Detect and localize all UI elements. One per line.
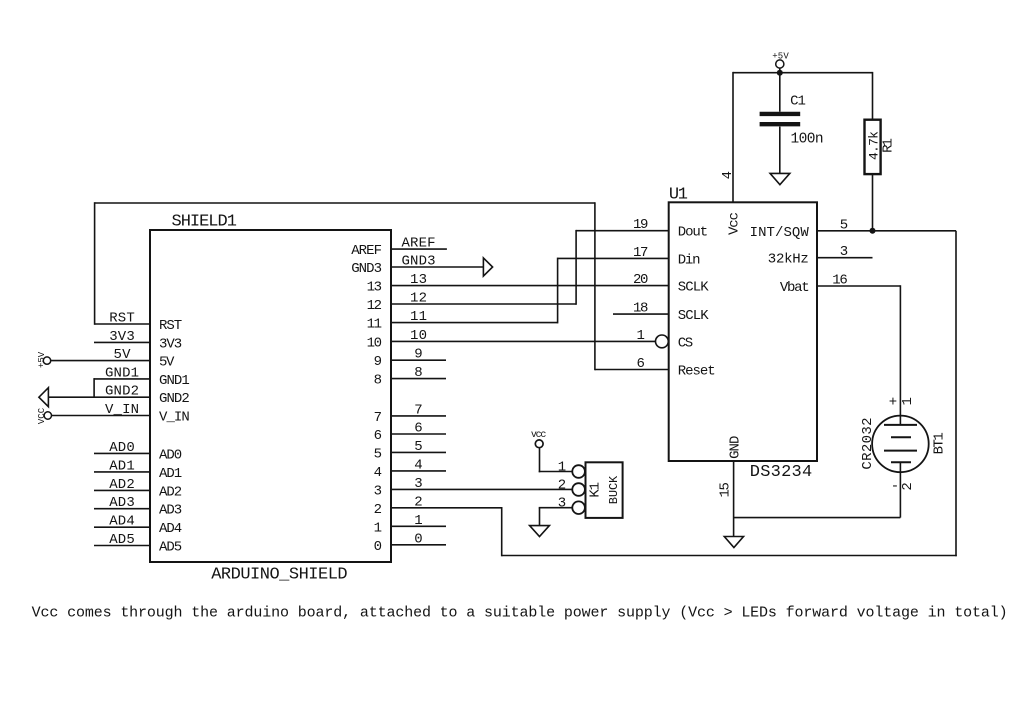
svg-text:R1: R1 (880, 138, 896, 153)
svg-text:10: 10 (367, 335, 382, 351)
capacitor C1 (760, 73, 801, 174)
power symbol +5V (top) (772, 52, 789, 73)
wire 11 to U1 Din pin 17 (391, 258, 669, 324)
svg-text:3: 3 (558, 496, 566, 512)
svg-text:C1: C1 (790, 94, 806, 110)
label R1 (rotated) (880, 138, 896, 153)
wire K1 pin3 to ground (539, 508, 573, 526)
svg-text:4: 4 (374, 465, 382, 481)
svg-text:AREF: AREF (351, 243, 382, 259)
svg-text:11: 11 (410, 309, 427, 325)
svg-text:AD5: AD5 (109, 532, 135, 548)
net label 12 (410, 291, 427, 307)
wire INT/SQW pin 5 (817, 230, 956, 232)
svg-text:13: 13 (410, 272, 427, 288)
battery plus sign (889, 395, 897, 411)
svg-text:1: 1 (900, 397, 916, 405)
svg-text:U1: U1 (669, 186, 688, 205)
svg-text:V_IN: V_IN (159, 410, 190, 426)
wire +5V rail (733, 72, 873, 202)
net label GND1 (105, 365, 139, 381)
global label arrow GND2 (left-pointing) (39, 388, 49, 407)
svg-text:CR2032: CR2032 (860, 417, 876, 469)
net label 2 (414, 494, 422, 510)
svg-text:6: 6 (414, 421, 422, 437)
U1 CS inverting bubble (656, 335, 669, 348)
svg-text:11: 11 (367, 317, 382, 333)
U1 left pin names (678, 225, 716, 380)
svg-text:RST: RST (159, 318, 182, 334)
svg-text:8: 8 (374, 373, 382, 389)
svg-text:AD2: AD2 (109, 477, 135, 493)
U1 pin number 4 (rotated, top) (720, 171, 736, 179)
svg-text:+5V: +5V (772, 52, 789, 62)
svg-text:SCLK: SCLK (678, 308, 710, 324)
K1 pin circles (572, 465, 585, 514)
U1 pin number 15 (rotated, bottom) (718, 482, 734, 498)
svg-text:AD1: AD1 (159, 466, 182, 482)
svg-text:3V3: 3V3 (109, 329, 135, 345)
net label RST (109, 311, 135, 327)
label C1 (790, 94, 806, 110)
svg-text:19: 19 (633, 217, 649, 233)
svg-text:2: 2 (900, 482, 916, 490)
svg-text:4.7k: 4.7k (867, 131, 882, 160)
U1 right pin numbers 5,3,16 (832, 217, 848, 288)
svg-text:BT1: BT1 (932, 432, 948, 454)
svg-text:+: + (889, 395, 897, 411)
svg-text:9: 9 (374, 354, 382, 370)
net labels AD0-AD5 (109, 440, 135, 548)
svg-text:3: 3 (414, 476, 422, 492)
svg-text:GND1: GND1 (105, 365, 139, 381)
wire 3V3 stub (94, 341, 150, 343)
net label GND2 (105, 384, 139, 400)
svg-text:AD3: AD3 (159, 503, 182, 519)
svg-text:VCC: VCC (37, 407, 47, 424)
resistor R1 (865, 120, 881, 174)
svg-text:5V: 5V (114, 347, 132, 363)
svg-text:2: 2 (374, 502, 382, 518)
svg-text:10: 10 (410, 328, 427, 344)
U1 right pin names (750, 225, 810, 296)
wire K1 pin1 to vcc (539, 448, 573, 473)
wire 5V (51, 360, 150, 362)
SHIELD1 right pin names (351, 243, 382, 555)
svg-text:9: 9 (414, 347, 422, 363)
svg-text:AD2: AD2 (159, 484, 182, 500)
svg-text:4: 4 (414, 457, 422, 473)
svg-text:5: 5 (374, 446, 382, 462)
svg-text:GND2: GND2 (105, 384, 139, 400)
svg-text:GND3: GND3 (402, 254, 436, 270)
net label 10 (410, 328, 427, 344)
net label 3 (414, 476, 422, 492)
net labels 9,8,7,6,5,4,1,0 (414, 347, 422, 548)
label 100n (791, 131, 824, 147)
label SHIELD1 reference (172, 213, 237, 232)
wire R1 bottom to INT/SQW net (872, 174, 874, 231)
net label 3V3 (109, 329, 135, 345)
wire V_IN (52, 415, 151, 417)
power symbol VCC (left, rotated) (37, 407, 52, 424)
net label 13 (410, 272, 427, 288)
svg-text:3V3: 3V3 (159, 336, 182, 352)
label K1 (rotated) (587, 482, 603, 498)
svg-text:SHIELD1: SHIELD1 (172, 213, 237, 232)
wire Vbat to battery (817, 285, 900, 425)
wire U1 GND pin 15 down (734, 461, 901, 537)
IC U1 body (669, 202, 817, 461)
net label 5V (114, 347, 132, 363)
net label V_IN (105, 402, 139, 418)
net label 11 (410, 309, 427, 325)
label DS3234 value (750, 463, 812, 482)
note text (32, 604, 1008, 621)
svg-text:BUCK: BUCK (607, 475, 621, 504)
svg-text:Vcc comes through the arduino: Vcc comes through the arduino board, att… (32, 604, 1008, 621)
wire 13 to U1 SCLK pin 20 (391, 285, 669, 287)
connector K1 body (586, 462, 623, 518)
svg-text:CS: CS (678, 335, 694, 351)
wires 9,8,7,6,5,4,1,0 stubs (391, 360, 446, 545)
U1 pin name Vcc (rotated, top) (727, 212, 743, 235)
wire 3 to K1 pin 2 (391, 488, 572, 490)
svg-text:12: 12 (410, 291, 427, 307)
label ARDUINO_SHIELD value (211, 566, 347, 585)
svg-text:1: 1 (558, 460, 566, 476)
junction INT/SQW and R1 (870, 228, 876, 234)
svg-text:17: 17 (633, 245, 649, 261)
ground symbol below U1 (724, 537, 743, 548)
svg-text:1: 1 (636, 328, 644, 344)
label CR2032 (rotated) (860, 417, 876, 469)
svg-text:ARDUINO_SHIELD: ARDUINO_SHIELD (211, 566, 347, 585)
wire GND2 (48, 396, 150, 398)
svg-text:0: 0 (414, 531, 422, 547)
svg-text:7: 7 (414, 402, 422, 418)
label 4.7k (rotated) (867, 131, 882, 160)
svg-text:AD5: AD5 (159, 540, 182, 556)
svg-text:vcc: vcc (531, 430, 547, 441)
svg-text:Din: Din (678, 252, 701, 268)
wire 2 (down, along bottom, up right side to INT/SQW net) (391, 231, 957, 557)
svg-text:RST: RST (109, 311, 135, 327)
svg-text:13: 13 (367, 280, 382, 296)
svg-text:AD1: AD1 (109, 458, 135, 474)
svg-text:-: - (891, 479, 899, 495)
battery pin number 1 (rotated) (900, 397, 916, 405)
ground symbol below K1 (530, 526, 550, 537)
label BUCK (rotated) (607, 475, 621, 504)
svg-text:SCLK: SCLK (678, 280, 710, 296)
svg-text:5: 5 (414, 439, 422, 455)
power symbol +5V (left, rotated) (37, 351, 51, 368)
svg-text:+5V: +5V (37, 351, 47, 368)
svg-text:1: 1 (374, 520, 382, 536)
svg-text:1: 1 (414, 513, 422, 529)
svg-text:0: 0 (374, 539, 382, 555)
svg-text:15: 15 (718, 482, 734, 498)
U1 SCLK pin 18 stub (613, 313, 669, 315)
battery minus sign (891, 479, 899, 495)
wire GND3 (391, 266, 483, 268)
net label GND3 (402, 254, 436, 270)
svg-text:12: 12 (367, 298, 382, 314)
wire AREF stub (391, 248, 447, 250)
svg-text:INT/SQW: INT/SQW (750, 225, 810, 241)
svg-text:20: 20 (633, 272, 649, 288)
svg-text:V_IN: V_IN (105, 402, 139, 418)
svg-text:Vbat: Vbat (780, 280, 810, 296)
wire GND1 (bracket down to GND2) (94, 378, 150, 398)
battery BT1 body (872, 416, 929, 473)
svg-text:6: 6 (374, 428, 382, 444)
label U1 reference (669, 186, 688, 205)
wire battery bottom to ground net (899, 462, 901, 517)
svg-text:AD4: AD4 (109, 514, 135, 530)
K1 pin numbers 1,2,3 (558, 460, 566, 512)
svg-text:Dout: Dout (678, 225, 709, 241)
SHIELD1 left pin names (159, 318, 190, 556)
svg-text:DS3234: DS3234 (750, 463, 812, 482)
svg-text:Vcc: Vcc (727, 212, 743, 235)
svg-text:Reset: Reset (678, 364, 716, 380)
wires AD0-AD5 stubs (94, 453, 150, 545)
battery pin number 2 (rotated) (900, 482, 916, 490)
wire RST net (shield RST up and over to U1 Reset) (95, 202, 669, 370)
svg-text:GND: GND (727, 436, 743, 459)
svg-text:AD3: AD3 (109, 495, 135, 511)
global label arrow GND3 (right-pointing) (483, 258, 492, 276)
svg-text:6: 6 (636, 356, 644, 372)
svg-text:100n: 100n (791, 131, 824, 147)
U1 pin name GND (rotated, bottom) (727, 436, 743, 459)
svg-text:3: 3 (374, 483, 382, 499)
svg-text:GND1: GND1 (159, 373, 190, 389)
label BT1 (rotated) (932, 432, 948, 454)
wire 10 to U1 CS pin 1 (391, 340, 655, 342)
svg-text:7: 7 (374, 410, 382, 426)
svg-text:AD0: AD0 (159, 447, 182, 463)
power symbol vcc above K1 (531, 430, 547, 448)
component SHIELD1 (arduino shield) body (150, 230, 391, 562)
junction at +5V rail (777, 70, 783, 76)
svg-text:AD0: AD0 (109, 440, 135, 456)
svg-text:2: 2 (558, 478, 566, 494)
ground symbol below C1 (770, 173, 790, 184)
svg-text:5V: 5V (159, 355, 175, 371)
wire 12 to U1 Dout pin 19 (391, 230, 669, 305)
svg-text:K1: K1 (587, 482, 603, 498)
svg-text:GND3: GND3 (351, 261, 382, 277)
svg-text:32kHz: 32kHz (768, 252, 809, 268)
net label AREF (402, 236, 436, 252)
svg-text:8: 8 (414, 365, 422, 381)
svg-text:AREF: AREF (402, 236, 436, 252)
svg-text:2: 2 (414, 494, 422, 510)
svg-text:AD4: AD4 (159, 521, 182, 537)
svg-text:GND2: GND2 (159, 391, 190, 407)
wire 32kHz stub pin 3 (817, 257, 873, 259)
U1 left pin numbers 19,17,20,18,1,6 (633, 217, 649, 372)
